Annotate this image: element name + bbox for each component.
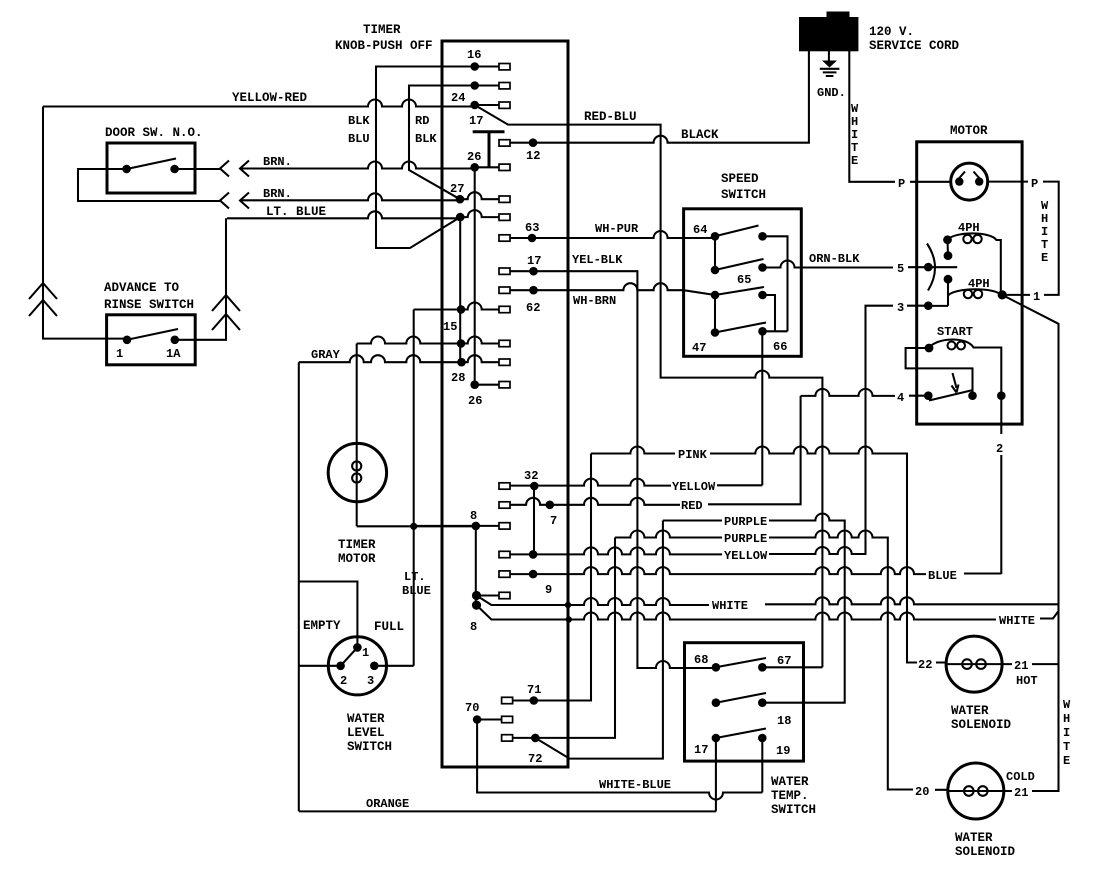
wire start coil jog to switch: [925, 344, 934, 353]
motor centrifugal contacts: [943, 235, 952, 244]
wire BLK/BLU vertical: [376, 67, 475, 249]
water temp contact 68: [712, 663, 721, 672]
timer terminal LT BLUE node: [456, 213, 465, 222]
bus bar terminal 12: [473, 132, 505, 167]
svg-text:YELLOW: YELLOW: [672, 480, 716, 494]
svg-text:19: 19: [776, 744, 790, 758]
timer terminal GRAY row: [457, 358, 466, 367]
timer terminal 8b pair: [472, 591, 481, 600]
speed switch contact 47: [711, 328, 720, 337]
hot water solenoid circle: [946, 636, 1002, 692]
water temp lever 17: [716, 729, 766, 739]
connector chevrons on rinse right wire: [212, 295, 240, 330]
timer terminal 16: [470, 62, 479, 71]
wire 66 junction: [763, 330, 788, 332]
wire cold 21 to white bus: [1004, 790, 1059, 792]
svg-text:T: T: [1041, 238, 1048, 252]
svg-text:PURPLE: PURPLE: [724, 515, 767, 529]
wire P right to terminal 1: [988, 182, 1059, 295]
timer terminal row 342: [457, 339, 466, 348]
arrow BRN upper: [240, 161, 249, 177]
svg-text:17: 17: [694, 743, 708, 757]
svg-text:68: 68: [694, 653, 708, 667]
water temp contact 17: [712, 734, 721, 743]
motor start switch lever: [929, 390, 973, 401]
wire LT. BLUE row to timer: [227, 211, 460, 218]
speed switch lever row3: [715, 287, 764, 295]
svg-text:LT. BLUE: LT. BLUE: [266, 205, 326, 219]
wire 19 down to white-blue: [761, 738, 763, 793]
svg-text:28: 28: [451, 371, 465, 385]
svg-text:21: 21: [1014, 786, 1028, 800]
svg-text:WH-BRN: WH-BRN: [573, 294, 616, 308]
wire row3R down: [763, 295, 776, 331]
speed switch contact row2 left: [711, 266, 720, 275]
svg-text:1A: 1A: [166, 347, 181, 361]
wire door switch right to upper disconnect: [175, 168, 220, 170]
timer terminal 9: [499, 571, 510, 577]
svg-text:MOTOR: MOTOR: [950, 124, 988, 138]
wire WH-BRN to speed switch: [534, 283, 716, 295]
svg-text:BLUE: BLUE: [928, 569, 957, 583]
svg-text:8: 8: [470, 620, 477, 634]
svg-text:18: 18: [777, 714, 791, 728]
svg-text:1: 1: [1033, 290, 1040, 304]
speed switch lever 65: [715, 259, 764, 270]
svg-text:71: 71: [527, 683, 541, 697]
timer terminal 8: [472, 522, 481, 531]
water temp contact 18: [758, 698, 767, 707]
timer motor circle: [328, 443, 386, 501]
speed switch contact row3 right: [758, 291, 767, 300]
svg-text:YELLOW: YELLOW: [724, 549, 768, 563]
speed switch contact row3 left: [711, 291, 720, 300]
svg-text:9: 9: [545, 583, 552, 597]
wire row1R to 66: [763, 236, 788, 331]
wire ORANGE: [299, 810, 716, 812]
speed switch lever 64: [715, 226, 759, 237]
disconnect bracket upper: [220, 161, 229, 177]
wire 67 to red-blu vertical: [762, 666, 822, 668]
disconnect bracket lower: [220, 193, 229, 209]
wire water level 1 branch: [299, 582, 358, 648]
wire 64 to row2: [714, 236, 716, 270]
svg-text:H: H: [1041, 212, 1048, 226]
wire WHITE row A (timer 8 to solenoid white bus): [477, 596, 1059, 606]
water level contact 2: [336, 662, 345, 671]
timer edge junction dots: [565, 602, 571, 608]
svg-text:1: 1: [116, 347, 123, 361]
svg-text:GRAY: GRAY: [311, 348, 341, 362]
svg-text:4: 4: [897, 391, 904, 405]
svg-text:SOLENOID: SOLENOID: [955, 845, 1016, 859]
svg-text:WHITE-BLUE: WHITE-BLUE: [599, 778, 671, 792]
svg-text:BLK: BLK: [415, 132, 437, 146]
svg-text:TEMP.: TEMP.: [771, 789, 809, 803]
svg-text:HOT: HOT: [1016, 674, 1038, 688]
water temp contact 19: [758, 734, 767, 743]
svg-text:START: START: [937, 325, 973, 339]
svg-text:SOLENOID: SOLENOID: [951, 718, 1012, 732]
svg-text:WHITE: WHITE: [999, 614, 1035, 628]
svg-text:SWITCH: SWITCH: [347, 740, 392, 754]
junction timer motor / lt blue: [410, 523, 417, 530]
timer terminal 70: [473, 715, 482, 724]
wire YELLOW 2 (timer to motor 3): [510, 306, 928, 555]
wire left drop from YELLOW-RED to rinse switch: [43, 107, 127, 339]
svg-text:EMPTY: EMPTY: [303, 619, 341, 633]
speed switch lever 47: [715, 323, 766, 333]
motor start switch arrow: [952, 373, 959, 393]
svg-text:3: 3: [367, 674, 374, 688]
svg-text:I: I: [1063, 726, 1070, 740]
water temp contact 67: [758, 663, 767, 672]
svg-text:T: T: [1063, 740, 1070, 754]
svg-text:PURPLE: PURPLE: [724, 532, 767, 546]
svg-text:H: H: [1063, 712, 1070, 726]
svg-text:120 V.: 120 V.: [869, 25, 914, 39]
cold water solenoid circle: [948, 763, 1004, 819]
timer terminal 63: [499, 235, 510, 241]
water temp lever 68: [716, 658, 766, 667]
wire door switch loop to lower disconnect: [78, 169, 220, 201]
timer terminal Y2 node: [499, 551, 510, 557]
svg-text:ORANGE: ORANGE: [366, 797, 409, 811]
svg-text:1: 1: [362, 646, 369, 660]
svg-text:H: H: [851, 115, 858, 129]
wire gray bus left vertical: [298, 362, 300, 811]
svg-text:E: E: [851, 154, 858, 168]
timer terminal 26: [470, 163, 479, 172]
svg-text:WATER: WATER: [347, 712, 385, 726]
svg-text:16: 16: [467, 48, 481, 62]
svg-text:3: 3: [897, 301, 904, 315]
wire PURPLE 2 (timer 72 to cold solenoid 20): [512, 531, 948, 790]
service cord plug 120V: [799, 17, 858, 51]
svg-text:27: 27: [450, 182, 464, 196]
rinse switch contact 1: [123, 336, 132, 345]
wire WHITE service cord to motor P: [849, 51, 950, 182]
svg-text:72: 72: [528, 752, 542, 766]
svg-text:E: E: [1041, 251, 1048, 265]
timer terminal 15 row: [457, 305, 466, 314]
wire timer motor branch: [357, 344, 476, 527]
water level contact 1: [353, 643, 362, 652]
svg-text:BLUE: BLUE: [402, 584, 431, 598]
ground wire and symbol GND: [828, 51, 830, 66]
svg-text:2: 2: [996, 442, 1003, 456]
wire 3 to coil: [928, 305, 948, 307]
water level switch circle: [328, 637, 386, 695]
svg-text:MOTOR: MOTOR: [338, 552, 376, 566]
wire WH-PUR to speed switch 64: [510, 231, 715, 238]
svg-text:LEVEL: LEVEL: [347, 726, 385, 740]
svg-text:BLACK: BLACK: [681, 128, 719, 142]
svg-text:5: 5: [897, 262, 904, 276]
svg-text:FULL: FULL: [374, 620, 404, 634]
wire row3 to 47: [714, 295, 716, 333]
wire BRN upper to timer 26: [240, 162, 475, 169]
timer terminal 17b: [499, 268, 510, 274]
svg-text:47: 47: [692, 341, 706, 355]
motor terminal 1 node: [998, 290, 1007, 299]
rinse switch lever: [127, 329, 178, 340]
timer terminal 27: [456, 195, 465, 204]
wire YELLOW-RED: [43, 100, 475, 107]
svg-text:TIMER: TIMER: [363, 23, 401, 37]
timer terminal 12: [499, 140, 510, 146]
timer box: [442, 41, 568, 767]
wire PINK (timer 71 to hot solenoid 22): [512, 447, 946, 701]
speed switch contact 65 right: [758, 263, 767, 272]
svg-text:62: 62: [526, 301, 540, 315]
svg-text:15: 15: [443, 320, 457, 334]
rinse switch contact 1A: [171, 336, 180, 345]
water temp lever row2: [716, 693, 766, 703]
svg-text:RED-BLU: RED-BLU: [584, 110, 637, 124]
door switch contact left: [122, 165, 131, 174]
svg-text:COLD: COLD: [1006, 770, 1035, 784]
svg-text:ADVANCE TO: ADVANCE TO: [104, 281, 180, 295]
svg-text:8: 8: [470, 509, 477, 523]
water temp contact row2 left: [712, 698, 721, 707]
door switch contact right: [170, 165, 179, 174]
svg-text:TIMER: TIMER: [338, 538, 376, 552]
wire YEL-BLK to water temp switch 68: [534, 271, 716, 668]
wire ORN-BLK speed 65 to motor 5: [763, 261, 958, 268]
speed switch contact 64: [711, 232, 720, 241]
wire water level 2 to gray bus: [299, 665, 341, 667]
timer bus 8 vertical: [475, 526, 477, 605]
wire motor 1 diagonal white down: [1002, 295, 1058, 791]
svg-text:26: 26: [467, 150, 481, 164]
motor terminal 3: [924, 301, 933, 310]
svg-text:32: 32: [524, 469, 538, 483]
svg-text:WATER: WATER: [955, 831, 993, 845]
wire WHITE-BLUE (timer 70 to water temp 19): [477, 720, 762, 800]
wire PURPLE 1 (timer 72 diag to water temp 18): [535, 514, 844, 759]
svg-text:PINK: PINK: [678, 448, 708, 462]
svg-text:SWITCH: SWITCH: [771, 803, 816, 817]
door switch box DOOR SW. N.O.: [107, 143, 195, 193]
svg-text:7: 7: [550, 514, 557, 528]
wire RED (timer 7 to motor 4): [510, 389, 928, 505]
speed switch contact row1 right: [758, 232, 767, 241]
svg-text:GND.: GND.: [817, 86, 846, 100]
svg-text:W: W: [1063, 698, 1071, 712]
svg-text:70: 70: [465, 701, 479, 715]
svg-text:SPEED: SPEED: [721, 172, 759, 186]
svg-text:ORN-BLK: ORN-BLK: [809, 252, 860, 266]
wire LT BLUE vertical (water level 3 to timer 15): [413, 310, 415, 666]
wire water level 3 to lt blue: [374, 665, 413, 667]
svg-text:WATER: WATER: [771, 775, 809, 789]
motor box: [917, 142, 1022, 424]
wire WHITE row B: [477, 605, 1059, 619]
speed switch contact 66: [758, 327, 767, 336]
svg-text:BLK: BLK: [348, 114, 370, 128]
wire timer 24 diagonal to RED-BLU: [475, 105, 823, 667]
motor terminal 5: [924, 263, 933, 272]
wire YELLOW (timer 32 to speed 66): [510, 479, 762, 486]
svg-text:BRN.: BRN.: [263, 155, 292, 169]
svg-text:WHITE: WHITE: [712, 599, 748, 613]
wire RD/BLK vertical: [409, 86, 475, 200]
advance to rinse switch box: [107, 315, 196, 365]
svg-text:T: T: [851, 141, 858, 155]
motor start switch contacts: [924, 391, 933, 400]
svg-text:I: I: [1041, 225, 1048, 239]
svg-text:E: E: [1063, 754, 1070, 768]
svg-text:20: 20: [915, 785, 929, 799]
svg-text:SERVICE CORD: SERVICE CORD: [869, 39, 960, 53]
svg-text:22: 22: [918, 658, 932, 672]
svg-text:BLU: BLU: [348, 132, 370, 146]
timer terminal 24: [470, 101, 479, 110]
svg-text:63: 63: [525, 221, 539, 235]
water level contact 3: [370, 662, 379, 671]
door switch lever: [127, 159, 176, 170]
svg-text:KNOB-PUSH OFF: KNOB-PUSH OFF: [335, 39, 433, 53]
wire BLACK from 12 to service cord: [510, 51, 809, 143]
svg-text:12: 12: [526, 149, 540, 163]
connector chevrons on left wire: [29, 283, 57, 316]
svg-text:DOOR SW. N.O.: DOOR SW. N.O.: [105, 126, 203, 140]
wire hot 21 to white bus: [1002, 663, 1058, 665]
timer bus 460 vertical: [459, 217, 461, 362]
timer terminal 28/26b: [470, 380, 479, 389]
svg-text:WH-PUR: WH-PUR: [595, 222, 639, 236]
timer terminal row2: [470, 81, 479, 90]
wire BRN lower to timer 27: [240, 193, 460, 200]
motor centrifugal arc: [927, 244, 935, 291]
svg-text:21: 21: [1014, 659, 1028, 673]
water level lever: [341, 650, 356, 666]
svg-text:65: 65: [737, 273, 751, 287]
speed switch box: [684, 209, 802, 356]
svg-text:64: 64: [693, 223, 707, 237]
wire 17 down to orange: [715, 738, 717, 811]
svg-text:YELLOW-RED: YELLOW-RED: [232, 91, 308, 105]
arrow BRN lower: [240, 193, 249, 209]
svg-text:YEL-BLK: YEL-BLK: [572, 253, 623, 267]
svg-text:RED: RED: [681, 499, 703, 513]
timer terminal 72: [502, 735, 513, 741]
wire BLUE (timer 9 to motor 2): [510, 567, 1001, 574]
svg-text:WATER: WATER: [951, 704, 989, 718]
svg-text:BRN.: BRN.: [263, 187, 292, 201]
wire motor 2 down to BLUE: [1000, 396, 1002, 574]
timer terminal 62: [499, 287, 510, 293]
svg-text:P: P: [1031, 177, 1038, 191]
timer terminal 32: [499, 483, 510, 489]
svg-text:SWITCH: SWITCH: [721, 188, 766, 202]
svg-text:P: P: [898, 177, 905, 191]
svg-text:W: W: [1041, 199, 1049, 213]
motor pilot circle P: [951, 163, 988, 200]
svg-text:17: 17: [469, 114, 483, 128]
water temp switch box: [685, 643, 804, 761]
svg-text:RINSE SWITCH: RINSE SWITCH: [104, 298, 194, 312]
svg-text:RD: RD: [415, 114, 429, 128]
wire 66 down to YELLOW: [761, 331, 763, 485]
timer bus 26 vertical: [474, 167, 476, 384]
svg-text:2: 2: [340, 674, 347, 688]
timer terminal 7: [499, 502, 510, 508]
svg-text:66: 66: [773, 340, 787, 354]
svg-text:26: 26: [468, 394, 482, 408]
svg-text:17: 17: [527, 254, 541, 268]
svg-text:67: 67: [777, 654, 791, 668]
timer terminal 71: [502, 697, 513, 703]
svg-text:W: W: [851, 102, 859, 116]
svg-text:24: 24: [451, 91, 465, 105]
svg-text:I: I: [851, 128, 858, 142]
wire rinse 1A up to LT BLUE: [175, 218, 226, 339]
wire 32 bus vertical: [533, 486, 535, 555]
svg-text:LT.: LT.: [404, 570, 426, 584]
